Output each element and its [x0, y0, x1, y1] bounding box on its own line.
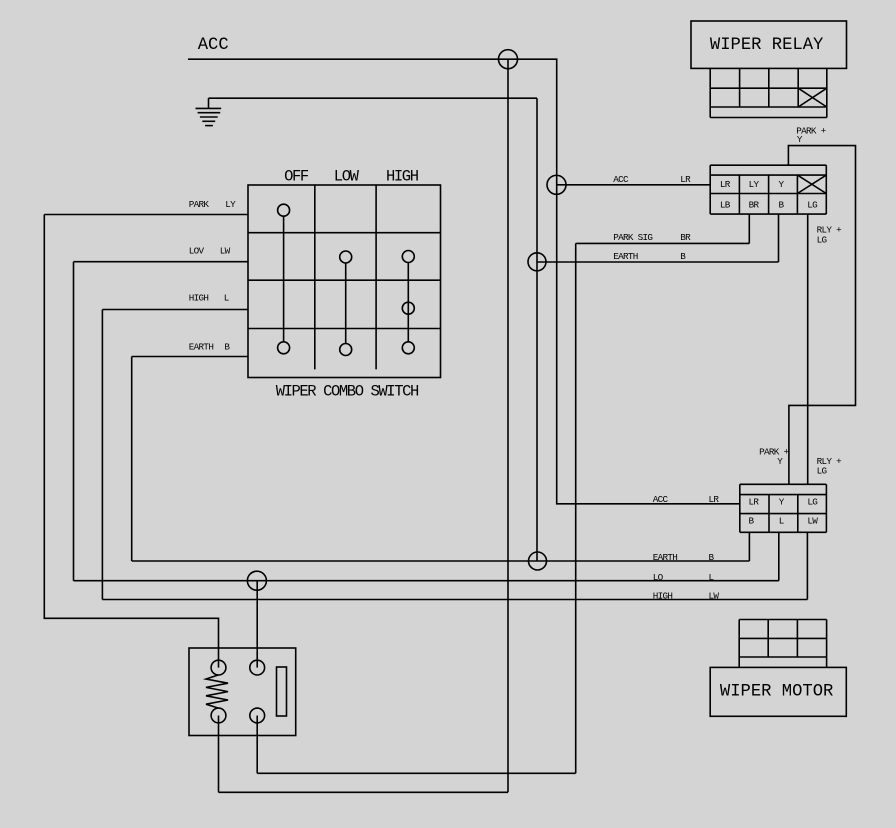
svg-text:L: L: [709, 572, 714, 583]
svg-text:BR: BR: [749, 199, 760, 210]
svg-text:Y: Y: [779, 497, 785, 508]
svg-text:B: B: [680, 251, 686, 262]
svg-text:ACC: ACC: [198, 36, 229, 55]
svg-text:LW: LW: [220, 246, 231, 257]
svg-text:HIGH: HIGH: [653, 591, 673, 602]
svg-text:B: B: [779, 199, 785, 210]
svg-text:LOV: LOV: [189, 246, 205, 257]
svg-text:LY: LY: [749, 179, 760, 190]
svg-text:EARTH: EARTH: [189, 342, 214, 353]
svg-text:L: L: [779, 516, 784, 527]
svg-text:LG: LG: [817, 234, 827, 245]
svg-text:PARK SIG: PARK SIG: [613, 232, 652, 243]
svg-text:WIPER RELAY: WIPER RELAY: [710, 36, 823, 55]
svg-text:LOW: LOW: [334, 167, 360, 185]
svg-text:ACC: ACC: [613, 174, 629, 185]
svg-text:LG: LG: [807, 199, 817, 210]
svg-text:LR: LR: [720, 179, 731, 190]
svg-text:LW: LW: [709, 591, 720, 602]
svg-text:Y: Y: [777, 456, 783, 467]
svg-text:ACC: ACC: [653, 494, 669, 505]
svg-text:LB: LB: [720, 199, 731, 210]
svg-text:L: L: [224, 293, 229, 304]
svg-text:LR: LR: [749, 497, 760, 508]
svg-text:EARTH: EARTH: [653, 552, 678, 563]
svg-text:WIPER MOTOR: WIPER MOTOR: [720, 682, 833, 701]
svg-text:WIPER COMBO SWITCH: WIPER COMBO SWITCH: [276, 382, 419, 400]
svg-text:EARTH: EARTH: [613, 251, 638, 262]
svg-text:LR: LR: [680, 174, 691, 185]
svg-text:B: B: [224, 342, 230, 353]
svg-text:B: B: [749, 516, 755, 527]
svg-text:LW: LW: [807, 516, 818, 527]
svg-text:LG: LG: [807, 497, 817, 508]
svg-text:PARK: PARK: [189, 199, 210, 210]
svg-text:Y: Y: [779, 179, 785, 190]
svg-text:LR: LR: [709, 494, 720, 505]
svg-text:LY: LY: [225, 199, 236, 210]
svg-text:LO: LO: [653, 572, 664, 583]
svg-text:PARK +: PARK +: [759, 446, 789, 457]
svg-text:HIGH: HIGH: [386, 167, 419, 185]
svg-text:LG: LG: [817, 465, 827, 476]
svg-text:HIGH: HIGH: [189, 293, 209, 304]
svg-text:OFF: OFF: [284, 167, 309, 185]
svg-text:BR: BR: [680, 232, 691, 243]
